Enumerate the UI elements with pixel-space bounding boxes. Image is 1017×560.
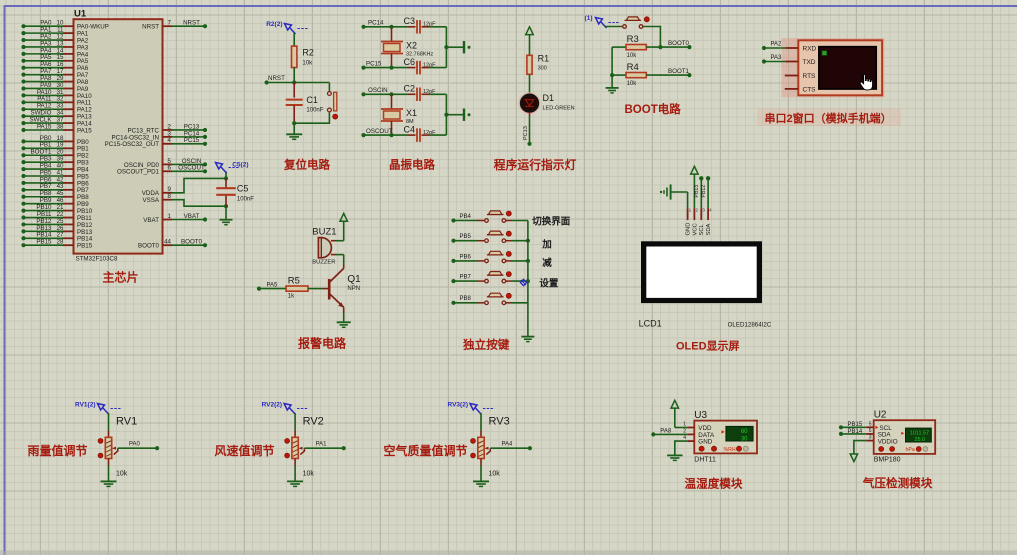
capacitor C1 xyxy=(293,83,295,98)
svg-text:RV1: RV1 xyxy=(116,416,137,428)
svg-text:风速值调节: 风速值调节 xyxy=(215,443,275,458)
wire top to RV2 xyxy=(294,413,296,431)
svg-text:OSCOUT: OSCOUT xyxy=(178,165,205,172)
reset button xyxy=(328,83,330,92)
U1 left pin 26 PB13 wire xyxy=(21,229,25,233)
U1 left pin 14 PA4 wire xyxy=(21,52,25,56)
mouse hand cursor xyxy=(860,74,872,90)
svg-text:SCL: SCL xyxy=(699,223,705,235)
keys common bus wire xyxy=(527,221,529,337)
svg-text:R4: R4 xyxy=(627,62,639,73)
wire SDA PB12 xyxy=(707,178,709,208)
blue probe marker (1) xyxy=(596,18,603,25)
svg-text:复位电路: 复位电路 xyxy=(283,157,330,171)
node C5 bottom junction xyxy=(224,204,228,208)
wire OSCIN to C2 xyxy=(364,93,409,95)
U1 left pin 42 PB6 wire xyxy=(21,181,25,185)
wire NRST horizontal xyxy=(267,82,330,84)
svg-text:NPN: NPN xyxy=(347,286,360,292)
node BOOT1 terminal xyxy=(687,73,691,77)
wire to ground bar xyxy=(446,114,463,116)
svg-text:hPa: hPa xyxy=(906,447,915,453)
wire top to RV1 xyxy=(108,413,110,431)
svg-text:PA0: PA0 xyxy=(129,442,141,448)
svg-text:10k: 10k xyxy=(627,81,638,87)
wire C3 right xyxy=(429,26,446,28)
U1 left pin 20 BOOT1 wire xyxy=(21,153,25,157)
blue probe marker C5(2) xyxy=(216,163,223,170)
U1 right pin 1 VBAT xyxy=(163,219,173,221)
U1 left pin 16 PA6 wire xyxy=(21,66,25,70)
svg-text:R3: R3 xyxy=(627,34,639,45)
resistor R4 xyxy=(612,74,626,76)
U1 right pin 6 OSCOUT_PD1 xyxy=(163,170,173,172)
svg-text:OSCIN: OSCIN xyxy=(368,87,388,94)
blue probe marker RV2(2) xyxy=(284,404,291,411)
svg-text:VCC: VCC xyxy=(692,223,698,235)
buzzer BUZ1 xyxy=(318,238,331,258)
svg-text:R5: R5 xyxy=(288,276,300,287)
svg-text:7: 7 xyxy=(168,20,172,27)
svg-text:NRST: NRST xyxy=(183,20,200,27)
svg-text:C4: C4 xyxy=(403,125,415,135)
svg-text:1k: 1k xyxy=(288,294,295,300)
svg-text:CTS: CTS xyxy=(803,87,817,94)
svg-text:10k: 10k xyxy=(116,471,128,478)
U1 left pin 12 PA2 wire xyxy=(21,38,25,42)
OLED pin stubs xyxy=(687,208,689,220)
U1 right pin 44 BOOT0 xyxy=(163,244,173,246)
wire PA8 to DATA xyxy=(651,432,655,436)
transistor Q1 xyxy=(343,255,345,265)
svg-text:R2(2): R2(2) xyxy=(266,21,282,28)
RV3 adjust dots xyxy=(471,439,476,444)
power arrow above R1 xyxy=(526,27,534,35)
wire PA3 to TXD xyxy=(762,59,766,63)
blue probe marker R2(2) xyxy=(285,24,292,31)
wire C4 right xyxy=(429,134,446,136)
svg-text:60: 60 xyxy=(741,429,748,435)
wire RV1 bottom to ground xyxy=(108,459,110,466)
capacitor C5 xyxy=(225,178,227,189)
node R3 BOOT0 junction xyxy=(658,45,662,49)
ground arrow below U2 xyxy=(850,454,857,462)
U2 pin stubs xyxy=(866,426,874,428)
wire VSSA to C5 bottom xyxy=(172,200,226,207)
wire wiper to PA1 xyxy=(304,447,343,449)
label 串口2窗口 highlight band xyxy=(757,109,901,127)
svg-text:C5(2): C5(2) xyxy=(232,162,248,169)
capacitor C3 xyxy=(416,20,418,34)
svg-text:PC15: PC15 xyxy=(366,60,382,67)
U3 indicator icons xyxy=(699,446,704,451)
svg-text:STM32F103C8: STM32F103C8 xyxy=(76,255,119,262)
capacitor C4 xyxy=(416,128,418,142)
svg-text:PB5: PB5 xyxy=(460,234,472,240)
wire RV3 bottom to ground xyxy=(480,459,482,466)
U1 left pin 29 PA8 wire xyxy=(21,79,25,83)
OLED ground left symbol xyxy=(687,192,689,208)
push button PB8 xyxy=(451,301,455,305)
node NRST xyxy=(265,80,269,84)
U1 right pin 8 VSSA xyxy=(163,199,173,201)
svg-text:8: 8 xyxy=(168,193,172,200)
svg-text:PB12: PB12 xyxy=(701,185,707,198)
svg-text:BOOT0: BOOT0 xyxy=(181,239,203,246)
svg-text:28: 28 xyxy=(57,239,64,246)
resistor R5 base xyxy=(257,287,261,291)
svg-text:空气质量值调节: 空气质量值调节 xyxy=(384,443,468,458)
U1 left pin 41 PB5 wire xyxy=(21,174,25,178)
svg-text:OLED显示屏: OLED显示屏 xyxy=(676,340,740,353)
wire marker stub to C5 top xyxy=(225,172,227,179)
svg-text:3: 3 xyxy=(869,435,872,441)
resistor R2 xyxy=(292,46,297,67)
U1 left pin 18 PB0 wire xyxy=(21,139,25,143)
U1 right pin 7 NRST xyxy=(163,25,173,27)
svg-text:报警电路: 报警电路 xyxy=(298,336,347,351)
wire right vertical xyxy=(445,94,447,135)
wire top to R2 xyxy=(293,33,295,46)
U1 left pin 10 PA0 wire xyxy=(21,24,25,28)
wire top to RV3 xyxy=(480,413,482,431)
svg-text:加: 加 xyxy=(541,239,552,251)
U1 left pin 43 PB7 wire xyxy=(21,188,25,192)
svg-text:PA4: PA4 xyxy=(502,442,514,448)
U1 left pin 31 PA10 wire xyxy=(21,93,25,97)
svg-text:R1: R1 xyxy=(538,54,550,64)
svg-text:PC15-OSC32_OUT: PC15-OSC32_OUT xyxy=(105,141,160,148)
svg-text:6: 6 xyxy=(168,165,172,172)
svg-text:SDA: SDA xyxy=(706,223,712,235)
ground bar symbol xyxy=(463,109,465,121)
svg-text:GND: GND xyxy=(698,439,712,446)
wire PA2 to RXD xyxy=(762,46,766,50)
svg-text:切换界面: 切换界面 xyxy=(532,216,571,228)
svg-text:TXD: TXD xyxy=(803,59,816,66)
ground below RV1 xyxy=(101,480,117,482)
svg-text:D1: D1 xyxy=(543,93,555,103)
svg-text:C2: C2 xyxy=(403,84,415,94)
svg-text:BOOT0: BOOT0 xyxy=(138,243,160,250)
wire PC14 to C3 xyxy=(364,26,409,28)
svg-text:BUZZER: BUZZER xyxy=(312,260,335,266)
svg-text:温湿度模块: 温湿度模块 xyxy=(685,477,743,491)
svg-text:设置: 设置 xyxy=(539,278,559,290)
wire button to C1 bottom xyxy=(294,112,329,123)
U1 left pin 39 PB3 wire xyxy=(21,160,25,164)
potentiometer RV3 xyxy=(478,437,484,458)
U1 left pin 34 SWDIO wire xyxy=(21,114,25,118)
svg-text:气压检测模块: 气压检测模块 xyxy=(862,476,933,490)
blue junction marker xyxy=(520,279,526,285)
svg-text:PB8: PB8 xyxy=(460,296,472,302)
svg-text:VSSA: VSSA xyxy=(142,197,159,204)
svg-text:PB7: PB7 xyxy=(460,275,472,281)
terminal screen xyxy=(819,47,877,90)
potentiometer RV2 xyxy=(292,437,298,458)
svg-text:NRST: NRST xyxy=(142,24,159,31)
svg-text:LCD1: LCD1 xyxy=(639,318,662,328)
svg-text:PC15: PC15 xyxy=(184,137,200,144)
U1 left pin 27 PB14 wire xyxy=(21,236,25,240)
U1 left pin 28 PB15 wire xyxy=(21,243,25,247)
wire C2 right xyxy=(429,93,446,95)
U1 right pin 4 PC15-OSC32_OUT xyxy=(163,143,173,145)
svg-text:R2: R2 xyxy=(302,48,314,58)
U1 left pin 37 SWCLK wire xyxy=(21,121,25,125)
svg-text:程序运行指示灯: 程序运行指示灯 xyxy=(494,158,577,172)
svg-text:PB13: PB13 xyxy=(694,185,700,198)
LED D1 xyxy=(519,93,539,113)
node crystal bottom tee xyxy=(389,66,393,70)
BMP180 module U2 body xyxy=(874,420,936,454)
resistor R3 xyxy=(612,46,626,48)
capacitor C6 xyxy=(416,61,418,75)
wire C5 to ground xyxy=(225,206,227,219)
ground below Q1 xyxy=(337,321,351,323)
ground below keys bus xyxy=(521,336,534,338)
svg-text:C3: C3 xyxy=(403,16,415,26)
svg-text:Q1: Q1 xyxy=(347,274,361,285)
wire VDD xyxy=(675,427,687,429)
svg-text:1011.57: 1011.57 xyxy=(910,430,929,436)
svg-text:30: 30 xyxy=(741,436,748,442)
node bus junction PB7 xyxy=(526,279,530,283)
wire R3 left down to R4 xyxy=(611,47,613,75)
svg-text:C6: C6 xyxy=(403,57,415,67)
svg-text:10k: 10k xyxy=(303,471,315,478)
node OSCOUT xyxy=(361,133,365,137)
svg-text:VDDIO: VDDIO xyxy=(878,438,898,445)
svg-text:25.0: 25.0 xyxy=(915,437,926,443)
RV1 adjust dots xyxy=(98,439,103,444)
svg-text:C1: C1 xyxy=(306,95,318,105)
svg-text:BOOT0: BOOT0 xyxy=(668,40,690,47)
push button PB4 xyxy=(451,218,455,222)
U2 pin names xyxy=(875,426,878,429)
svg-text:NRST: NRST xyxy=(268,75,285,82)
selection halo around terminal xyxy=(782,38,885,98)
U2 indicator icons xyxy=(879,447,884,452)
svg-text:%RH: %RH xyxy=(724,447,736,453)
ground below C5 xyxy=(220,219,233,221)
svg-text:10k: 10k xyxy=(489,471,501,478)
node BOOT0 terminal xyxy=(687,45,691,49)
wire wiper to PA4 xyxy=(490,447,530,449)
U1 left pin 22 PB11 wire xyxy=(21,215,25,219)
blue probe marker RV1(2) xyxy=(98,404,105,411)
wire to ground xyxy=(293,123,295,134)
svg-text:PA3: PA3 xyxy=(771,55,783,61)
power arrow above buzzer xyxy=(340,213,348,221)
svg-text:PA5: PA5 xyxy=(267,283,279,289)
U1 left pin 15 PA5 wire xyxy=(21,59,25,63)
wire PB14 to SDA xyxy=(839,432,843,436)
svg-text:PB15: PB15 xyxy=(77,243,93,250)
power arrow above OLED VCC xyxy=(691,166,699,174)
wire wiper to PA0 xyxy=(118,447,157,449)
svg-text:PA2: PA2 xyxy=(771,41,783,47)
wire to ground bar xyxy=(446,46,463,48)
svg-text:独立按键: 独立按键 xyxy=(463,338,510,352)
svg-text:RXD: RXD xyxy=(803,46,817,53)
node PC14 xyxy=(361,25,365,29)
push button PB7 xyxy=(451,279,455,283)
svg-text:晶振电路: 晶振电路 xyxy=(389,157,435,171)
svg-text:44: 44 xyxy=(164,239,171,246)
svg-text:主芯片: 主芯片 xyxy=(103,270,139,285)
U1 left pin 46 PB9 wire xyxy=(21,202,25,206)
boot select switch xyxy=(605,26,623,28)
node crystal top tee xyxy=(389,25,393,29)
svg-text:BOOT1: BOOT1 xyxy=(668,68,690,75)
power arrow above U3 xyxy=(671,400,679,408)
svg-text:减: 减 xyxy=(542,257,552,269)
svg-text:U2: U2 xyxy=(874,410,887,421)
node R2/C1 junction xyxy=(292,80,296,84)
svg-text:C5: C5 xyxy=(237,184,249,194)
svg-text:U3: U3 xyxy=(694,410,707,421)
svg-text:GND: GND xyxy=(686,223,692,236)
svg-text:X1: X1 xyxy=(406,108,417,118)
node crystal bottom tee xyxy=(389,133,393,137)
wire PB15 to SCL xyxy=(839,425,843,429)
svg-text:RV1(2): RV1(2) xyxy=(75,402,95,409)
svg-text:PA1: PA1 xyxy=(316,442,328,448)
svg-text:38: 38 xyxy=(57,123,64,130)
blue probe marker RV3(2) xyxy=(470,404,477,411)
node bus junction PB6 xyxy=(526,259,530,263)
svg-text:100nF: 100nF xyxy=(306,108,323,114)
U1 right pin 5 OSCIN_PD0 xyxy=(163,163,173,165)
node bus junction PB5 xyxy=(526,239,530,243)
crystal X2 xyxy=(391,27,393,42)
capacitor C2 xyxy=(416,88,418,102)
RTS pin stub xyxy=(785,75,799,77)
node C1 bottom xyxy=(292,121,296,125)
U3 pin stubs xyxy=(687,427,694,429)
svg-text:BOOT电路: BOOT电路 xyxy=(625,102,682,116)
U1 left pin 19 PB1 wire xyxy=(21,146,25,150)
push button PB6 xyxy=(451,259,455,263)
svg-text:RV3(2): RV3(2) xyxy=(448,402,468,409)
node PC13 bottom xyxy=(527,142,531,146)
svg-text:BMP180: BMP180 xyxy=(874,457,901,464)
U1 left pin 25 PB12 wire xyxy=(21,222,25,226)
U1 left pin 32 PA11 wire xyxy=(21,100,25,104)
wire SCL PB13 xyxy=(700,178,702,208)
green block on screen xyxy=(822,51,827,56)
svg-text:PB6: PB6 xyxy=(460,254,472,260)
svg-text:雨量值调节: 雨量值调节 xyxy=(28,443,88,458)
wire R1 to D1 xyxy=(529,74,531,95)
ground bar symbol xyxy=(463,41,465,53)
DHT11 module U3 body xyxy=(694,421,757,454)
OLED display panel LCD1 xyxy=(641,241,762,303)
svg-text:串口2窗口（模拟手机端）: 串口2窗口（模拟手机端） xyxy=(765,111,892,125)
CTS pin stub xyxy=(785,88,799,90)
wire PC15 to C6 xyxy=(364,67,409,69)
wire OSCOUT to C4 xyxy=(364,134,409,136)
svg-text:6: 6 xyxy=(869,428,872,434)
wire emitter to ground xyxy=(343,313,345,322)
ground below R4 xyxy=(606,87,619,89)
wire GND to ground xyxy=(675,441,687,455)
node R4 left junction xyxy=(610,73,614,77)
U1 right pin 9 VDDA xyxy=(163,192,173,194)
RV3 wiper xyxy=(486,448,490,454)
svg-text:OSCOUT: OSCOUT xyxy=(366,128,393,135)
svg-text:10k: 10k xyxy=(627,53,638,59)
svg-text:PC13: PC13 xyxy=(523,126,529,140)
node OSCIN xyxy=(361,92,365,96)
ground below RV2 xyxy=(287,480,303,482)
RV2 adjust dots xyxy=(285,439,290,444)
svg-text:RV3: RV3 xyxy=(489,416,510,428)
svg-text:1: 1 xyxy=(168,213,172,220)
U1 left pin 45 PB8 wire xyxy=(21,195,25,199)
U3 display xyxy=(726,426,753,441)
U1 left pin 11 PA1 wire xyxy=(21,31,25,35)
node mid junction xyxy=(444,113,448,117)
U1 left pin 40 PB4 wire xyxy=(21,167,25,171)
svg-text:PB15: PB15 xyxy=(36,239,52,246)
push button PB5 xyxy=(451,239,455,243)
ground below U3 xyxy=(667,454,683,456)
svg-text:PA15: PA15 xyxy=(37,123,52,130)
svg-text:PC14: PC14 xyxy=(368,20,384,27)
U1 left pin 38 PA15 wire xyxy=(21,128,25,132)
svg-text:5: 5 xyxy=(869,421,872,427)
wire switch to BOOT0 net xyxy=(643,27,660,48)
svg-text:VBAT: VBAT xyxy=(184,213,200,220)
svg-text:RV2: RV2 xyxy=(303,416,324,428)
ground below C1 xyxy=(286,133,302,135)
node C5 top junction xyxy=(224,176,228,180)
svg-text:X2: X2 xyxy=(406,41,417,51)
RV1 wiper xyxy=(114,448,118,454)
U1 left pin 30 PA9 wire xyxy=(21,86,25,90)
svg-text:RTS: RTS xyxy=(803,73,817,80)
svg-text:U1: U1 xyxy=(74,9,87,20)
svg-text:RV2(2): RV2(2) xyxy=(262,402,282,409)
wire to buzzer top xyxy=(336,240,344,242)
microcontroller U1 STM32F103C8 body xyxy=(74,19,163,253)
svg-text:DHT11: DHT11 xyxy=(694,456,716,463)
wire R4 to ground xyxy=(611,75,613,88)
svg-text:300: 300 xyxy=(538,66,547,72)
U1 left pin 13 PA3 wire xyxy=(21,45,25,49)
resistor R1 xyxy=(527,55,532,74)
RV2 wiper xyxy=(300,448,304,454)
U1 left pin 33 PA12 wire xyxy=(21,107,25,111)
svg-text:OSCOUT_PD1: OSCOUT_PD1 xyxy=(117,169,160,176)
U1 right pin 3 PC14-OSC32_IN xyxy=(163,136,173,138)
wire RV2 bottom to ground xyxy=(294,459,296,466)
wire VDDA to C5 top xyxy=(172,178,226,192)
svg-text:4: 4 xyxy=(168,137,172,144)
svg-text:(1): (1) xyxy=(585,15,593,22)
svg-text:BUZ1: BUZ1 xyxy=(312,227,336,238)
svg-text:LED-GREEN: LED-GREEN xyxy=(543,105,575,111)
svg-text:PA15: PA15 xyxy=(77,127,92,134)
svg-text:100nF: 100nF xyxy=(237,197,254,203)
U1 right pin 2 PC13_RTC xyxy=(163,129,173,131)
potentiometer RV1 xyxy=(105,437,111,458)
wire VDDIO to ground arrow xyxy=(854,441,866,454)
wire right vertical xyxy=(445,27,447,68)
